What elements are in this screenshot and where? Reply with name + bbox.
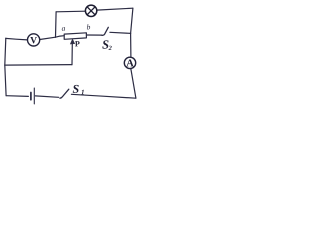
terminal label b [87,24,90,29]
wire bottom left [6,95,28,98]
switch label S1 subscript [81,90,84,95]
wire rheostat left [56,36,65,38]
switch S2 blade [102,27,108,35]
wire battery to S1 [35,96,58,97]
wire voltmeter left [6,38,28,40]
switch label S1 [73,85,79,93]
slider label P [75,41,80,46]
wire bottom right [71,94,135,98]
wire left vertical [5,38,6,95]
switch S1 blade [60,89,69,98]
ammeter circle [124,57,135,68]
rheostat slider arrow [70,39,75,44]
terminal label a [62,27,65,31]
wire slider shaft [71,44,73,65]
wire lamp branch vertical [55,12,58,37]
wire slider middle [5,64,72,67]
switch label S2 [102,40,108,48]
A label [126,59,133,66]
rheostat body [64,33,86,40]
wire right vertical lower [131,69,136,99]
wire rheostat right to S2 [86,34,102,36]
wire right vertical upper [131,8,133,57]
wire top left of lamp [56,10,85,13]
voltmeter circle [27,34,39,46]
wire S2 to right vertical [110,32,131,33]
lamp [85,5,96,16]
wire voltmeter right [40,37,56,39]
battery B [31,88,34,104]
switch label S2 subscript [109,46,112,50]
wire top right of lamp [97,8,133,10]
V label [30,37,37,43]
